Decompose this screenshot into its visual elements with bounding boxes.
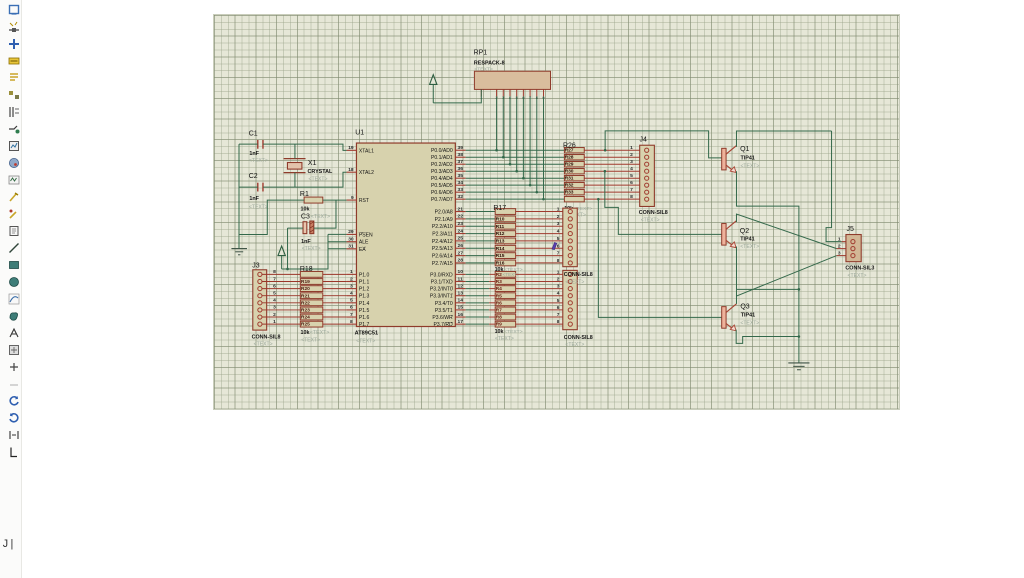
svg-text:<TEXT>: <TEXT> <box>565 342 584 348</box>
svg-text:R31: R31 <box>565 175 574 181</box>
wire R2 network row 2 to SIL8 lower pin 2 <box>516 280 568 282</box>
svg-text:U1: U1 <box>355 129 364 136</box>
svg-text:2: 2 <box>630 152 633 158</box>
wire R29 to J4 pin 4 <box>584 170 644 172</box>
wire J3 pin 7 to R19 <box>262 280 300 282</box>
svg-text:P0.0/AD0: P0.0/AD0 <box>431 148 453 154</box>
svg-text:P3.5/T1: P3.5/T1 <box>435 307 453 313</box>
svg-text:32: 32 <box>458 193 464 199</box>
svg-text:J3: J3 <box>252 262 259 269</box>
wire U1 P2.2 to R17 network <box>466 225 496 227</box>
wire U1 P3.7 to R2 network <box>466 323 496 325</box>
wire VCC to RP1 pin 1 <box>433 89 481 102</box>
wire crystal bottom <box>294 172 296 186</box>
svg-text:<TEXT>: <TEXT> <box>309 176 328 182</box>
wire R27 to J4 pin 2 <box>584 156 644 158</box>
svg-text:10k: 10k <box>495 328 504 334</box>
svg-text:8: 8 <box>350 318 353 324</box>
svg-text:<TEXT>: <TEXT> <box>301 337 320 343</box>
svg-text:P0.6/AD6: P0.6/AD6 <box>431 190 453 196</box>
wire Q1 collector up <box>736 131 831 147</box>
svg-text:35: 35 <box>458 172 464 178</box>
wire U1 P2.6 to R17 network <box>466 254 496 256</box>
wire RP1 pin 7 to P0.5 bus <box>529 96 532 186</box>
wire R23 to U1 P1.5 <box>323 308 347 310</box>
svg-text:R25: R25 <box>301 321 310 327</box>
wire RP1 pin 5 to P0.3 bus <box>515 96 518 172</box>
svg-text:37: 37 <box>458 159 464 165</box>
svg-text:P3.4/T0: P3.4/T0 <box>435 300 453 306</box>
wire C3 left <box>288 227 303 229</box>
resistor network R17,R10-R16 <box>493 204 522 272</box>
svg-text:<TEXT>: <TEXT> <box>641 217 660 223</box>
svg-text:3: 3 <box>557 221 560 227</box>
wire U1 P0.5 to R26 network <box>466 184 565 186</box>
wire J3 pin 1 to R25 <box>262 323 300 325</box>
wire R17 network row 3 to SIL8 upper pin 3 <box>516 225 568 227</box>
capacitor C1 <box>249 130 268 164</box>
svg-text:14: 14 <box>458 297 464 303</box>
transistor Q1 TIP41 <box>722 145 760 172</box>
svg-text:R21: R21 <box>301 293 310 299</box>
svg-text:P2.4/A12: P2.4/A12 <box>432 238 453 244</box>
toolbar icon: mirror <box>8 428 20 440</box>
svg-text:18: 18 <box>348 167 354 173</box>
toolbar icon: 2D closed path <box>8 309 20 321</box>
svg-text:R29: R29 <box>565 161 574 167</box>
connector CONN-SIL8 (upper) <box>557 206 577 266</box>
svg-text:R26: R26 <box>563 142 576 149</box>
svg-text:R20: R20 <box>301 286 310 292</box>
transistor Q2 TIP41 <box>722 220 760 249</box>
wire U1 P2.7 to R17 network <box>466 261 496 263</box>
svg-text:13: 13 <box>458 290 464 296</box>
svg-text:CONN-SIL8: CONN-SIL8 <box>564 334 593 340</box>
toolbar icon: current probe <box>8 224 20 236</box>
svg-text:R5: R5 <box>496 293 503 299</box>
svg-text:P2.2/A10: P2.2/A10 <box>432 224 453 230</box>
svg-text:24: 24 <box>458 228 464 234</box>
svg-text:R3: R3 <box>496 279 503 285</box>
svg-text:5: 5 <box>630 173 633 179</box>
svg-text:3: 3 <box>557 283 560 289</box>
wire U1 P3.1 to R2 network <box>466 280 496 282</box>
svg-text:P2.0/A8: P2.0/A8 <box>435 209 453 215</box>
svg-text:R18: R18 <box>300 265 313 272</box>
svg-text:31: 31 <box>348 243 354 249</box>
wire ALE <box>328 240 347 242</box>
transistor Q3 TIP41 <box>722 303 760 330</box>
wire R26 to J4 pin 1 <box>584 149 644 151</box>
svg-text:30: 30 <box>348 236 354 242</box>
wire U1 P0.1 to R26 network <box>466 156 565 158</box>
node VCC-C3 junction <box>286 267 289 270</box>
svg-text:<TEXT>: <TEXT> <box>249 157 268 163</box>
svg-text:XTAL1: XTAL1 <box>359 148 374 154</box>
wire J3 pin 3 to R23 <box>262 308 300 310</box>
svg-text:R2: R2 <box>496 271 503 277</box>
svg-text:R4: R4 <box>496 286 503 292</box>
toolbar icon: device pin <box>8 139 20 151</box>
svg-text:Q1: Q1 <box>740 146 749 153</box>
svg-text:J5: J5 <box>847 225 854 232</box>
power terminal VCC (RP1) <box>430 74 437 102</box>
svg-text:R15: R15 <box>496 253 505 259</box>
resistor pack RP1 RESPACK-8 <box>474 49 551 99</box>
svg-text:J4: J4 <box>639 136 646 143</box>
svg-text:4: 4 <box>557 290 560 296</box>
wire R17 network row 8 to SIL8 upper pin 8 <box>516 261 568 263</box>
svg-text:7: 7 <box>350 311 353 317</box>
wire R31 to J4 pin 6 <box>584 184 644 186</box>
svg-text:TIP41: TIP41 <box>740 155 754 161</box>
svg-text:6: 6 <box>630 180 633 186</box>
svg-text:<TEXT>: <TEXT> <box>474 66 493 72</box>
resistor R1 <box>300 190 323 212</box>
wire U1 P3.0 to R2 network <box>466 273 496 275</box>
toolbar icon: 2D markers <box>8 360 20 372</box>
wire R17 network row 1 to SIL8 upper pin 1 <box>516 210 568 212</box>
wire R17 network row 2 to SIL8 upper pin 2 <box>516 217 568 219</box>
wire Q3 collector node <box>735 289 737 304</box>
svg-text:P3.0/RXD: P3.0/RXD <box>430 272 453 278</box>
svg-text:10k: 10k <box>301 330 310 336</box>
capacitor C3 <box>301 213 330 252</box>
wire R1 left to ground <box>239 200 304 234</box>
svg-text:19: 19 <box>348 145 354 151</box>
wire R20 to U1 P1.2 <box>323 287 347 289</box>
svg-text:P3.3/INT1: P3.3/INT1 <box>430 293 453 299</box>
svg-text:<TEXT>: <TEXT> <box>740 163 759 169</box>
svg-text:1: 1 <box>557 206 560 212</box>
svg-text:1: 1 <box>630 145 633 151</box>
op-amp U1 microcontroller AT89C51 <box>347 129 466 344</box>
svg-text:11: 11 <box>458 276 463 282</box>
svg-text:4: 4 <box>557 228 560 234</box>
svg-text:CRYSTAL: CRYSTAL <box>308 169 333 175</box>
svg-text:R30: R30 <box>565 168 574 174</box>
svg-text:P0.5/AD5: P0.5/AD5 <box>431 183 453 189</box>
svg-text:R33: R33 <box>565 189 574 195</box>
svg-text:C3: C3 <box>301 213 310 220</box>
wire RP1 pin 4 to P0.2 bus <box>509 96 512 165</box>
wire U1 P3.5 to R2 network <box>466 308 496 310</box>
wire J3 pin 4 to R22 <box>262 301 300 303</box>
toolbar icon: subcircuit <box>8 105 20 117</box>
wire J4 pin1 node to Q1 base <box>604 130 722 157</box>
wire J3 pin 6 to R20 <box>262 287 300 289</box>
svg-text:21: 21 <box>458 206 464 212</box>
toolbar bottom marks <box>2 539 10 561</box>
svg-text:2: 2 <box>557 276 560 282</box>
svg-text:Q2: Q2 <box>740 227 749 234</box>
svg-text:1: 1 <box>350 269 353 275</box>
svg-text:C2: C2 <box>249 172 258 179</box>
wire R17 network row 6 to SIL8 upper pin 6 <box>516 247 568 249</box>
cursor mark <box>552 242 557 249</box>
svg-text:R8: R8 <box>496 314 503 320</box>
wire R2 network row 1 to SIL8 lower pin 1 <box>516 273 568 275</box>
wire C1 to XTAL1 <box>263 144 347 150</box>
wire R17 network row 7 to SIL8 upper pin 7 <box>516 254 568 256</box>
wire U1 P2.4 to R17 network <box>466 239 496 241</box>
svg-text:3: 3 <box>350 283 353 289</box>
wire R17 network row 4 to SIL8 upper pin 4 <box>516 232 568 234</box>
wire R33 to J4 pin 8 <box>584 198 644 200</box>
wire J3 pin 2 to R24 <box>262 316 300 318</box>
toolbar icon: 2D arc <box>8 292 20 304</box>
svg-text:TIP41: TIP41 <box>740 236 754 242</box>
svg-text:Q3: Q3 <box>740 303 749 310</box>
svg-text:P0.7/AD7: P0.7/AD7 <box>431 197 453 203</box>
svg-text:P1.7: P1.7 <box>359 322 370 328</box>
wire C2 to XTAL2 <box>263 172 347 187</box>
svg-text:4: 4 <box>350 290 353 296</box>
toolbar icon: separator <box>8 378 20 390</box>
svg-text:33: 33 <box>458 186 464 192</box>
wire R32 to J4 pin 7 <box>584 191 644 193</box>
wire U1 P0.7 to R26 network <box>466 198 565 200</box>
svg-text:P1.5: P1.5 <box>359 307 370 313</box>
svg-text:R24: R24 <box>301 314 310 320</box>
toolbar icon: bus mode <box>8 88 20 100</box>
svg-text:<TEXT>: <TEXT> <box>356 338 375 344</box>
resistor network R2-R9 <box>495 271 523 341</box>
wire U1 P0.4 to R26 network <box>466 177 565 179</box>
svg-text:P3.7/RD: P3.7/RD <box>434 322 454 328</box>
resistor network R18-R25 <box>300 265 329 342</box>
toolbar icon: rotate anticlockwise <box>8 411 20 423</box>
wire Q2 collector to J5 pin2 <box>736 214 836 249</box>
wire R2 network row 8 to SIL8 lower pin 8 <box>516 323 568 325</box>
svg-text:P1.1: P1.1 <box>359 279 370 285</box>
toolbar icon: tape recorder <box>8 173 20 185</box>
svg-text:8: 8 <box>630 194 633 200</box>
svg-text:15: 15 <box>458 304 464 310</box>
svg-text:R6: R6 <box>496 300 503 306</box>
wire R19 to U1 P1.1 <box>323 280 347 282</box>
svg-text:R9: R9 <box>496 321 503 327</box>
wire U1 P0.0 to R26 network <box>466 149 565 151</box>
svg-text:29: 29 <box>348 229 354 235</box>
wire J5 pin3 stub <box>837 254 846 256</box>
svg-text:R10: R10 <box>496 216 505 222</box>
svg-text:R7: R7 <box>496 307 503 313</box>
svg-text:6: 6 <box>350 304 353 310</box>
wire emitters junction horizontal <box>736 288 800 291</box>
svg-text:R1: R1 <box>300 190 309 197</box>
wire Q3 collector to J5 pin3 <box>736 255 836 295</box>
resistor network R26-R33 <box>563 142 592 218</box>
svg-text:P1.2: P1.2 <box>359 286 370 292</box>
wire U1 P0.2 to R26 network <box>466 163 565 165</box>
toolbar icon: terminal mode <box>8 122 20 134</box>
svg-text:R12: R12 <box>496 231 505 237</box>
wire RP1 pin 8 to P0.6 bus <box>535 96 538 193</box>
wire RP1 pin 6 to P0.4 bus <box>522 96 525 179</box>
svg-text:<TEXT>: <TEXT> <box>311 214 330 220</box>
wire R18 to U1 P1.0 <box>323 273 347 275</box>
toolbar icon: generator <box>8 190 20 202</box>
svg-text:<TEXT>: <TEXT> <box>302 246 321 252</box>
svg-text:R16: R16 <box>496 260 505 266</box>
svg-text:10k: 10k <box>301 206 310 212</box>
wire ground rail left <box>238 144 240 248</box>
svg-text:12: 12 <box>458 283 464 289</box>
svg-text:P2.3/A11: P2.3/A11 <box>432 231 453 237</box>
svg-text:6: 6 <box>557 304 560 310</box>
svg-text:5: 5 <box>557 297 560 303</box>
svg-text:P2.6/A14: P2.6/A14 <box>432 253 453 259</box>
svg-text:34: 34 <box>458 179 464 185</box>
connector J3 <box>252 262 281 347</box>
connector CONN-SIL8 (lower) <box>557 269 593 348</box>
svg-text:<TEXT>: <TEXT> <box>740 244 759 250</box>
wire J3 pin 8 to R18 <box>262 273 300 275</box>
wire U1 P2.5 to R17 network <box>466 247 496 249</box>
svg-text:36: 36 <box>458 166 464 172</box>
wire to ground right <box>798 289 800 363</box>
svg-text:AT89C51: AT89C51 <box>355 330 378 336</box>
toolbar icon: bracket <box>8 445 20 457</box>
wire R2 network row 6 to SIL8 lower pin 6 <box>516 308 568 310</box>
wire crystal top <box>294 144 296 158</box>
svg-text:P3.6/WR: P3.6/WR <box>432 315 453 321</box>
wire U1 P2.1 to R17 network <box>466 217 496 219</box>
svg-text:6: 6 <box>557 243 560 249</box>
svg-text:<TEXT>: <TEXT> <box>495 335 514 341</box>
connector J5 <box>838 225 874 278</box>
toolbar icon: 2D circle <box>8 275 20 287</box>
svg-text:27: 27 <box>458 250 464 256</box>
svg-text:PSEN: PSEN <box>359 232 373 238</box>
toolbar icon: voltage probe <box>8 207 20 219</box>
svg-text:X1: X1 <box>308 159 317 166</box>
power terminal VCC (left) <box>278 246 285 269</box>
svg-text:2: 2 <box>838 243 841 249</box>
toolbar icon: junction dot mode <box>8 37 20 49</box>
wire R2 network row 5 to SIL8 lower pin 5 <box>516 301 568 303</box>
svg-text:CONN-SIL8: CONN-SIL8 <box>252 334 281 340</box>
crystal X1 <box>284 158 333 182</box>
svg-text:R17: R17 <box>493 204 506 211</box>
svg-text:P1.3: P1.3 <box>359 293 370 299</box>
svg-text:XTAL2: XTAL2 <box>359 170 374 176</box>
toolbar icon: 2D text <box>8 326 20 338</box>
wire R2 network row 3 to SIL8 lower pin 3 <box>516 287 568 289</box>
svg-text:5: 5 <box>350 297 353 303</box>
label CONN-SIL8 (upper) <box>564 272 593 285</box>
svg-text:17: 17 <box>458 318 464 324</box>
svg-text:8: 8 <box>557 257 560 263</box>
wire PSEN <box>328 233 347 235</box>
svg-text:R22: R22 <box>301 300 310 306</box>
svg-text:EA: EA <box>359 246 366 252</box>
svg-text:39: 39 <box>458 145 464 151</box>
wire R25 to U1 P1.7 <box>323 323 347 325</box>
svg-text:9: 9 <box>351 194 354 200</box>
wire R1 right to RST <box>323 199 347 201</box>
svg-text:1: 1 <box>838 236 841 242</box>
wire C3 left vertical to VCC <box>287 228 289 269</box>
wire R21 to U1 P1.3 <box>323 294 347 296</box>
wire J3 pin 5 to R21 <box>262 294 300 296</box>
svg-text:22: 22 <box>458 213 464 219</box>
wire U1 P0.6 to R26 network <box>466 191 565 193</box>
svg-text:<TEXT>: <TEXT> <box>249 204 268 210</box>
toolbar icon: selector <box>8 3 20 15</box>
wire U1 P3.6 to R2 network <box>466 316 496 318</box>
wire U1 P2.3 to R17 network <box>466 232 496 234</box>
svg-text:1nF: 1nF <box>249 195 259 201</box>
svg-text:8: 8 <box>557 319 560 325</box>
svg-text:26: 26 <box>458 243 464 249</box>
wire R22 to U1 P1.4 <box>323 301 347 303</box>
svg-text:1: 1 <box>557 269 560 275</box>
wire R2 network row 7 to SIL8 lower pin 7 <box>516 316 568 318</box>
svg-text:16: 16 <box>458 311 464 317</box>
svg-text:23: 23 <box>458 221 464 227</box>
connector J4 <box>630 136 668 223</box>
svg-text:R23: R23 <box>301 307 310 313</box>
svg-text:P2.5/A13: P2.5/A13 <box>432 246 453 252</box>
svg-text:<TEXT>: <TEXT> <box>740 320 759 326</box>
svg-text:38: 38 <box>458 152 464 158</box>
wire Q3 emitter jog <box>736 329 800 343</box>
wire R17 network row 5 to SIL8 upper pin 5 <box>516 239 568 241</box>
svg-text:7: 7 <box>557 312 560 318</box>
wire R28 to J4 pin 3 <box>584 163 644 165</box>
wire RP1 pin 3 to P0.1 bus <box>502 96 505 158</box>
svg-text:TIP41: TIP41 <box>741 312 755 318</box>
toolbar icon: wire label <box>8 54 20 66</box>
svg-text:R32: R32 <box>565 182 574 188</box>
svg-text:10: 10 <box>458 269 464 275</box>
svg-text:R13: R13 <box>496 238 505 244</box>
svg-text:7: 7 <box>630 187 633 193</box>
svg-text:CONN-SIL8: CONN-SIL8 <box>639 210 668 216</box>
svg-text:P3.2/INT0: P3.2/INT0 <box>430 286 453 292</box>
toolbar icon: 2D box <box>8 258 20 270</box>
wire J5 pin1 stub <box>842 240 846 242</box>
svg-text:P1.0: P1.0 <box>359 272 370 278</box>
svg-text:5: 5 <box>557 235 560 241</box>
wire J5 pin2 stub <box>837 247 846 249</box>
wire U1 P3.2 to R2 network <box>466 287 496 289</box>
wire C3 right to RST node <box>314 200 336 228</box>
svg-text:ALE: ALE <box>359 239 369 245</box>
svg-text:2: 2 <box>350 276 353 282</box>
wire EA <box>328 247 347 249</box>
wire RP1 pin 2 to P0.0 bus <box>495 96 498 151</box>
wire R2 network row 4 to SIL8 lower pin 4 <box>516 294 568 296</box>
svg-text:R19: R19 <box>301 279 310 285</box>
svg-text:R28: R28 <box>565 154 574 160</box>
wire VCC run to EA/ALE/PSEN <box>282 234 328 269</box>
svg-text:P0.4/AD4: P0.4/AD4 <box>431 176 453 182</box>
toolbar icon: component mode <box>8 20 20 32</box>
svg-text:3: 3 <box>630 159 633 165</box>
toolbar icon: rotate clockwise <box>8 394 20 406</box>
svg-text:<TEXT>: <TEXT> <box>254 341 273 347</box>
wire C1 left <box>239 143 258 145</box>
wire U1 P2.0 to R17 network <box>466 210 496 212</box>
svg-text:P0.1/AD1: P0.1/AD1 <box>431 155 453 161</box>
svg-text:P2.7/A15: P2.7/A15 <box>432 260 453 266</box>
svg-text:R14: R14 <box>496 245 505 251</box>
svg-text:28: 28 <box>458 257 464 263</box>
svg-text:C1: C1 <box>249 130 258 137</box>
